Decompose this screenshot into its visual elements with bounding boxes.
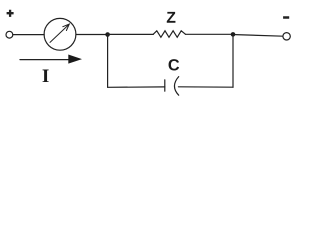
wire capacitor to bottom right [178,86,233,88]
resistor Z zigzag [153,31,185,38]
wire terminal to source [13,34,44,36]
wire bottom left to capacitor [108,86,165,88]
current arrow I head [68,55,82,64]
wire resistor to node B [185,33,233,35]
negative terminal circle [283,33,290,40]
wire node B down [232,34,234,87]
current arrow I shaft [20,59,70,61]
terminal minus sign [283,16,289,19]
wire source to node A [76,34,108,36]
capacitor C right curved plate [174,77,178,96]
label C [169,59,180,70]
node B junction dot [231,32,236,37]
capacitor C left plate [164,80,166,91]
terminal plus sign [7,10,14,17]
wire node A down [107,35,109,88]
wire node B to negative terminal [235,35,283,37]
positive terminal circle [6,31,13,38]
current source circle [44,18,76,50]
label Z [167,12,176,23]
current source arrow [50,24,69,42]
label I [43,70,49,82]
node A junction dot [105,32,110,37]
wire node A to resistor [108,33,154,35]
